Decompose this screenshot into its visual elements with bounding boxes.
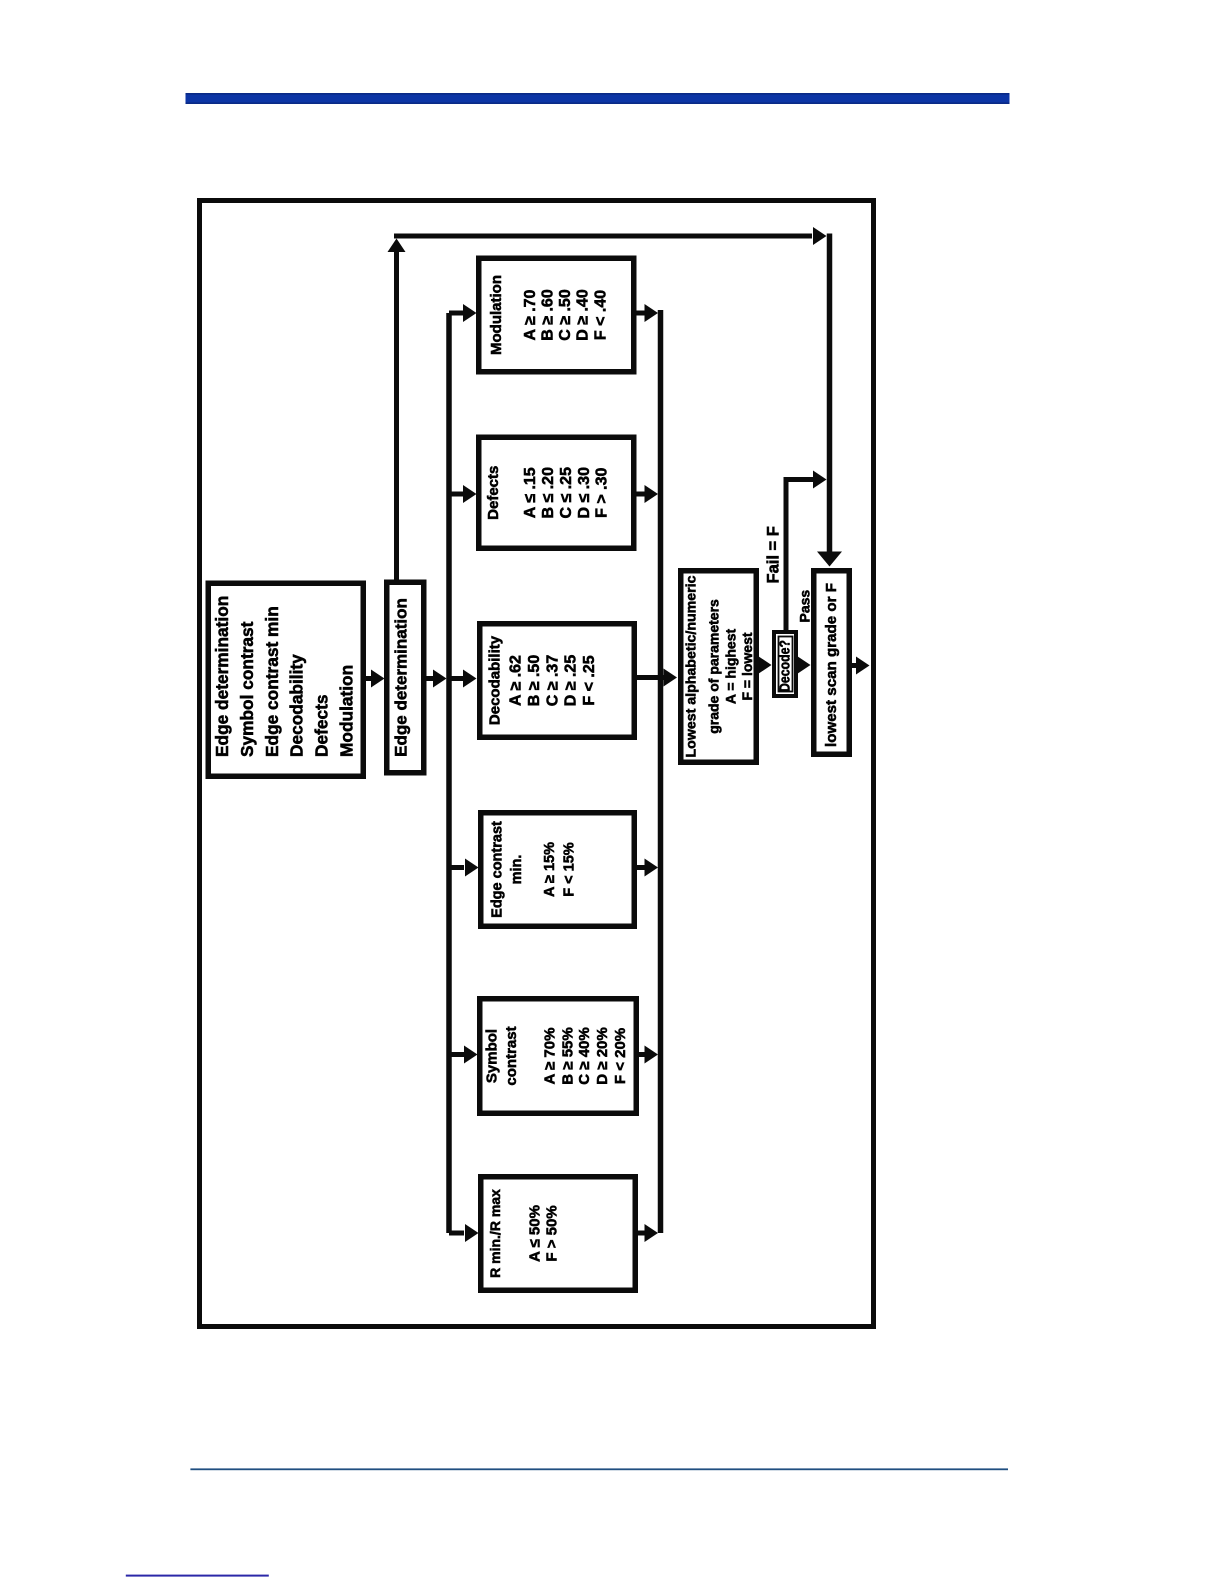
wire: collector line (vertical)	[658, 310, 664, 1233]
label: Fail = F	[765, 526, 783, 583]
wire: Edge contrast min to collector with arrowhead	[635, 859, 658, 877]
wire: right drop line into lowest-scan box with big arrowhead	[817, 234, 842, 567]
wire: Symbol contrast to collector with arrowhead	[637, 1046, 658, 1064]
wire: Defects to collector with arrowhead	[635, 485, 659, 503]
svg-text:D ≥ .25: D ≥ .25	[563, 655, 580, 707]
bottom thin blue rule	[190, 1468, 1008, 1470]
svg-text:Defects: Defects	[485, 466, 502, 520]
svg-text:A ≥ 15%: A ≥ 15%	[542, 842, 558, 897]
svg-text:F > .30: F > .30	[594, 468, 611, 518]
node: Defects box	[479, 437, 634, 548]
svg-text:F < .40: F < .40	[593, 290, 610, 340]
svg-text:C ≥ .50: C ≥ .50	[557, 289, 574, 341]
svg-text:Edge contrast min: Edge contrast min	[262, 606, 282, 757]
blue title bar	[186, 93, 1010, 104]
svg-text:A ≤ .15: A ≤ .15	[522, 467, 539, 518]
svg-text:D ≥ 20%: D ≥ 20%	[594, 1027, 611, 1084]
wire: Modulation to collector with arrowhead	[635, 304, 659, 322]
wire: branch to Symbol contrast with arrowhead	[449, 1046, 478, 1064]
svg-text:Lowest alphabetic/numeric: Lowest alphabetic/numeric	[683, 575, 699, 757]
svg-text:C ≥ .37: C ≥ .37	[544, 655, 561, 707]
node: Decodability box	[480, 624, 635, 738]
wire: branch bottom corner to R min/R max with arrowhead	[449, 1224, 479, 1242]
svg-text:C ≥ 40%: C ≥ 40%	[576, 1027, 593, 1084]
svg-text:F < .25: F < .25	[581, 655, 598, 705]
svg-text:contrast: contrast	[503, 1026, 520, 1085]
node: Edge determination box	[387, 582, 424, 773]
wire: branch to Decodability with arrowhead	[451, 670, 477, 688]
svg-text:Edge contrast: Edge contrast	[490, 821, 506, 918]
node: Lowest alphabetic/numeric grade box	[681, 571, 757, 763]
wire: Decodability to Lowest-grade box with arrowhead (crosses collector)	[635, 669, 677, 687]
node: Symbol contrast box	[480, 999, 637, 1114]
svg-text:grade of parameters: grade of parameters	[706, 599, 722, 734]
wire: branch to Edge contrast min with arrowhead	[449, 859, 479, 877]
svg-text:A ≥ 70%: A ≥ 70%	[541, 1028, 558, 1085]
node: Edge contrast min box	[481, 813, 635, 927]
svg-text:A ≤ 50%: A ≤ 50%	[526, 1205, 543, 1262]
svg-text:D ≥ .40: D ≥ .40	[575, 289, 592, 341]
svg-text:Pass: Pass	[797, 590, 813, 623]
svg-text:F < 20%: F < 20%	[612, 1028, 629, 1084]
svg-text:Modulation: Modulation	[488, 275, 505, 355]
bottom-left short blue underline	[126, 1575, 269, 1577]
svg-text:Modulation: Modulation	[337, 665, 357, 757]
svg-text:Edge determination: Edge determination	[392, 598, 411, 757]
svg-text:B ≤ .20: B ≤ .20	[540, 467, 557, 519]
svg-text:F = lowest: F = lowest	[739, 632, 755, 700]
svg-text:Defects: Defects	[312, 695, 332, 757]
svg-text:A ≥ .62: A ≥ .62	[508, 655, 525, 706]
svg-text:B ≥ .50: B ≥ .50	[526, 655, 543, 707]
wire: list box to Edge determination box with arrowhead	[364, 670, 385, 688]
svg-text:A ≥ .70: A ≥ .70	[522, 289, 539, 340]
svg-text:Decode?: Decode?	[777, 640, 794, 692]
wire: top feedback line to the right with arrowhead	[394, 227, 827, 245]
svg-text:B ≥ .60: B ≥ .60	[540, 289, 557, 341]
svg-text:Decodability: Decodability	[487, 635, 504, 725]
svg-text:B ≥ 55%: B ≥ 55%	[559, 1027, 576, 1084]
label: Pass	[797, 590, 813, 623]
svg-text:Decodability: Decodability	[287, 654, 307, 757]
svg-text:C ≤ .25: C ≤ .25	[558, 467, 575, 519]
wire: Edge determination to branch line with arrowhead	[425, 670, 447, 688]
svg-text:F > 50%: F > 50%	[543, 1205, 560, 1261]
wire: Decode? to lowest-scan box with arrowhead (Pass path)	[796, 656, 811, 674]
svg-text:Symbol: Symbol	[484, 1029, 501, 1083]
node: Modulation box	[479, 258, 634, 372]
wire: Fail path from Decode? top, up then right with arrowhead	[784, 471, 827, 633]
svg-text:A = highest: A = highest	[722, 629, 738, 705]
wire: Edge determination fail line up with arrowhead	[388, 239, 406, 582]
wire: branch to Modulation with arrowhead	[449, 304, 477, 322]
wire: Lowest-grade box to Decode? with arrowhead	[757, 656, 772, 674]
svg-text:F < 15%: F < 15%	[562, 842, 578, 897]
node: lowest scan grade or F box	[814, 571, 850, 755]
outer flowchart frame	[200, 201, 874, 1327]
svg-text:D ≤ .30: D ≤ .30	[576, 467, 593, 519]
svg-text:Symbol contrast: Symbol contrast	[237, 621, 257, 757]
node: parameter list box (Edge determination / Symbol contrast / ...)	[208, 583, 363, 776]
node: R min./R max box	[481, 1177, 636, 1291]
svg-text:Fail = F: Fail = F	[765, 526, 783, 583]
svg-text:Edge determination: Edge determination	[212, 596, 232, 757]
wire: R min/R max to collector bottom corner with arrowhead	[636, 1224, 658, 1242]
svg-text:min.: min.	[509, 855, 525, 885]
wire: branch distribution line (vertical)	[446, 313, 452, 1233]
svg-text:lowest scan grade or F: lowest scan grade or F	[824, 583, 840, 747]
wire: branch to Defects with arrowhead	[449, 485, 477, 503]
svg-text:R min./R max: R min./R max	[487, 1189, 503, 1278]
node: Decode? box (double border)	[774, 632, 796, 696]
wire: lowest-scan box to outer frame with arrowhead	[850, 657, 870, 675]
